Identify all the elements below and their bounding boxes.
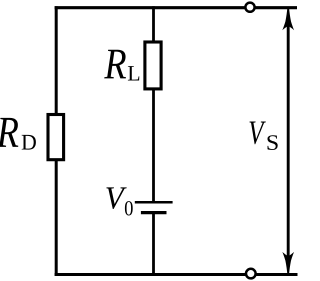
wire top horizontal — [55, 6, 297, 9]
label R_L — [104, 50, 139, 81]
arrow VS head up — [282, 7, 294, 30]
label V_0 — [106, 187, 132, 215]
wire bottom horizontal — [55, 273, 298, 276]
wire middle vertical lower — [152, 213, 155, 276]
label V_S — [250, 121, 278, 150]
arrow VS shaft — [287, 24, 290, 258]
wire left vertical — [55, 6, 58, 276]
resistor R_L box — [145, 42, 161, 89]
arrow VS head down — [282, 252, 294, 275]
terminal bottom circle — [246, 269, 256, 279]
battery V0 long plate — [135, 201, 173, 204]
resistor R_D box — [48, 115, 64, 160]
wire middle vertical upper — [152, 6, 155, 202]
battery V0 short plate — [141, 211, 167, 214]
label R_D — [0, 118, 36, 150]
terminal top circle — [245, 3, 254, 12]
